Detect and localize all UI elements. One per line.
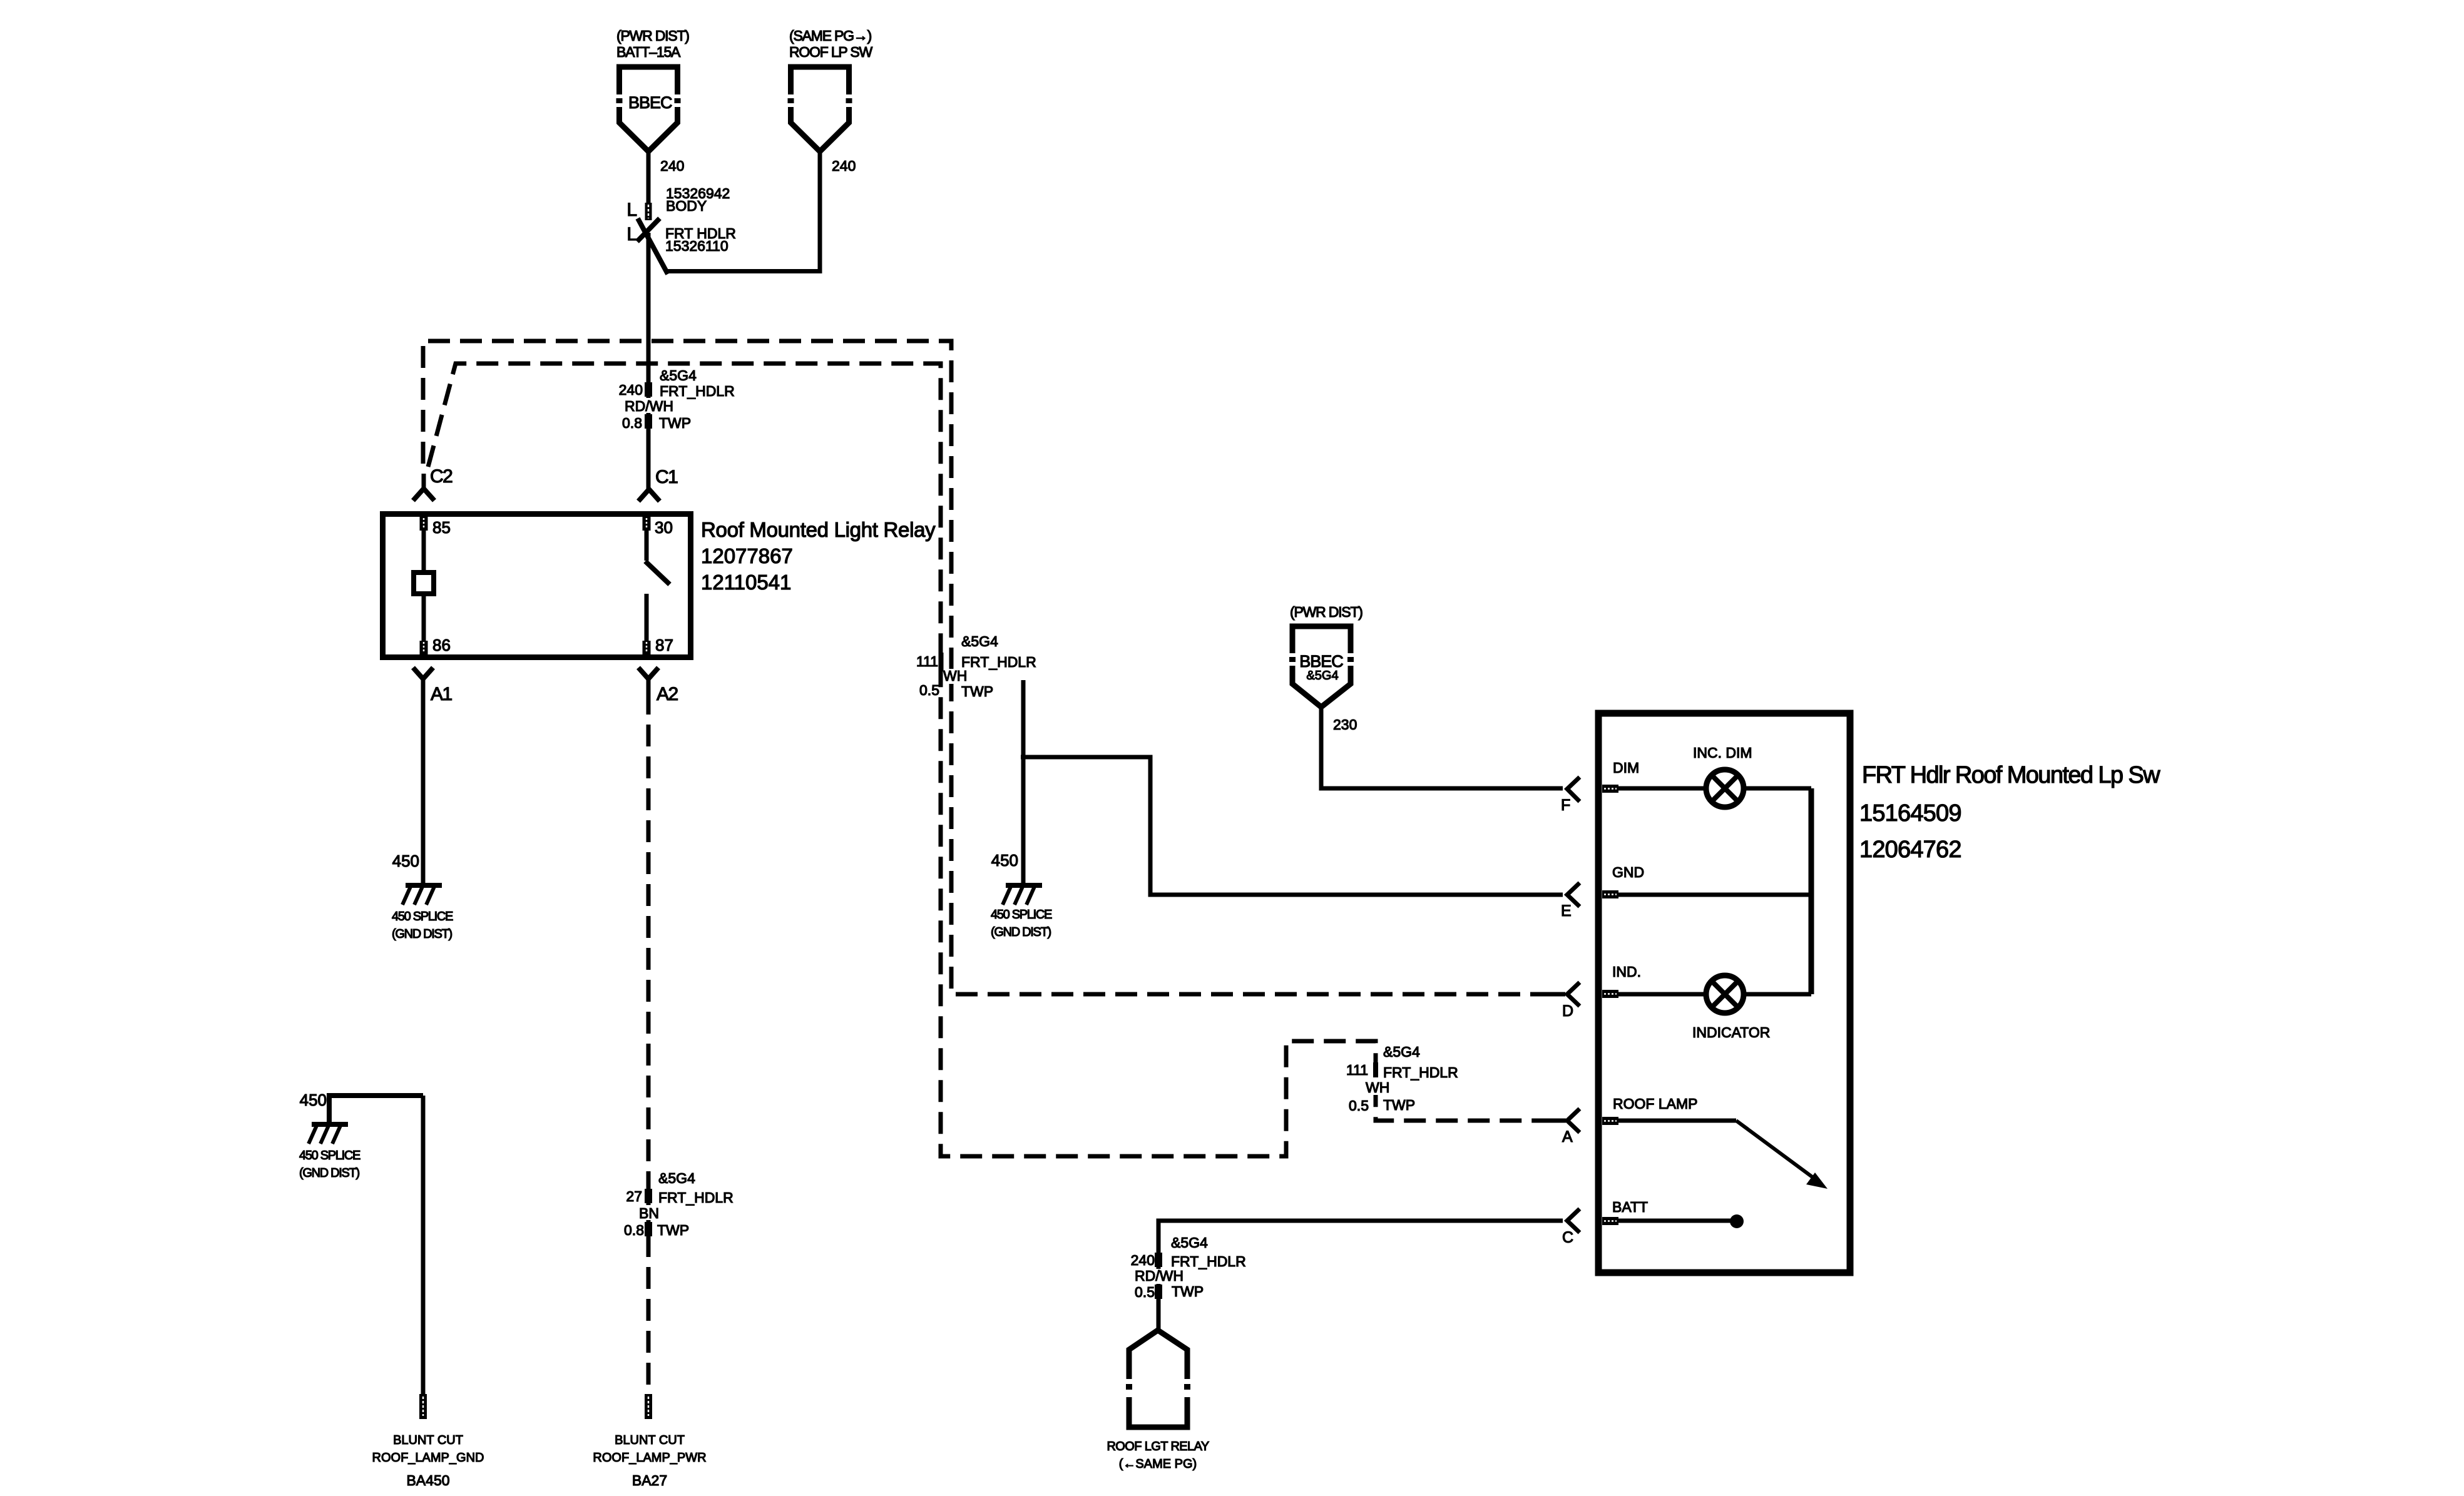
wire end dash at A (1546, 1119, 1566, 1123)
svg-text:(SAME PG→): (SAME PG→) (789, 28, 872, 44)
relay pin 30 (643, 517, 651, 531)
relay pin 86 (420, 641, 428, 654)
svg-text:(PWR DIST): (PWR DIST) (1290, 604, 1362, 620)
svg-text:0.5: 0.5 (1135, 1284, 1155, 1300)
switch blade with arrow (1618, 1119, 1736, 1123)
wire to blunt cut BA450 (421, 1096, 426, 1394)
svg-text:&5G4: &5G4 (658, 1170, 695, 1186)
wire 230 to DIM pin F (1321, 707, 1563, 788)
svg-text:(GND DIST): (GND DIST) (392, 927, 452, 941)
wire to relay C1 (647, 233, 651, 489)
pin E GND (1567, 883, 1580, 907)
relay pin 87 (643, 641, 651, 654)
svg-text:&5G4: &5G4 (660, 367, 697, 384)
blunt cut ROOF_LAMP_GND BA450 (419, 1394, 427, 1419)
svg-text:(←SAME PG): (←SAME PG) (1119, 1457, 1197, 1471)
svg-text:INDICATOR: INDICATOR (1692, 1024, 1770, 1041)
svg-text:GND: GND (1612, 864, 1644, 880)
svg-text:TWP: TWP (1383, 1097, 1415, 1113)
wire label 27 BN 0.8 TWP &5G4 FRT_HDLR (645, 1189, 652, 1203)
svg-text:0.5: 0.5 (919, 682, 939, 698)
svg-text:&5G4: &5G4 (1383, 1044, 1420, 1060)
connector BBEC &5G4 (PWR DIST) (1292, 626, 1351, 707)
wire end dash at D (1545, 992, 1565, 997)
svg-text:BA27: BA27 (632, 1472, 667, 1488)
wire label 111 WH 0.5 TWP &5G4 FRT_HDLR (left) (939, 653, 944, 671)
svg-text:ROOF_LAMP_GND: ROOF_LAMP_GND (372, 1451, 484, 1465)
svg-text:TWP: TWP (659, 415, 691, 431)
svg-text:12110541: 12110541 (701, 571, 791, 594)
svg-text:BBEC: BBEC (628, 93, 672, 112)
svg-text:TWP: TWP (657, 1222, 689, 1238)
svg-text:15326110: 15326110 (665, 238, 728, 254)
svg-text:ROOF LAMP: ROOF LAMP (1613, 1096, 1697, 1112)
svg-text:450 SPLICE: 450 SPLICE (299, 1149, 360, 1163)
svg-text:BLUNT CUT: BLUNT CUT (393, 1433, 463, 1447)
svg-text:BATT: BATT (1612, 1199, 1648, 1215)
svg-text:&5G4: &5G4 (1306, 669, 1338, 683)
svg-text:(GND DIST): (GND DIST) (299, 1166, 360, 1180)
svg-text:ROOF_LAMP_PWR: ROOF_LAMP_PWR (593, 1451, 706, 1465)
pin A ROOF LAMP (1567, 1109, 1580, 1132)
svg-text:0.8: 0.8 (624, 1222, 644, 1238)
wire branch to GND pin E (1021, 757, 1563, 895)
relay coil (422, 531, 426, 570)
connector A2 (638, 668, 658, 679)
relay box Roof Mounted Light Relay (383, 514, 691, 658)
svg-text:E: E (1561, 902, 1572, 920)
svg-text:C2: C2 (430, 466, 452, 487)
connector A1 (413, 668, 433, 679)
svg-text:0.8: 0.8 (622, 415, 642, 431)
pin F DIM (1567, 777, 1580, 801)
wire 240 from ROOF LP SW (667, 148, 820, 272)
svg-text:0.5: 0.5 (1349, 1097, 1369, 1114)
svg-text:BATT–15A: BATT–15A (616, 44, 681, 60)
relay switch contact (645, 531, 649, 561)
svg-text:L: L (626, 224, 637, 245)
svg-text:TWP: TWP (961, 683, 993, 700)
svg-text:BLUNT CUT: BLUNT CUT (615, 1433, 685, 1447)
svg-text:450 SPLICE: 450 SPLICE (991, 908, 1052, 922)
connector ROOF LP SW (SAME PG) (791, 67, 849, 151)
ground 450 SPLICE (GND DIST) right (1006, 883, 1042, 888)
svg-text:D: D (1562, 1002, 1573, 1020)
wire 240 from BATT-15A fuse (647, 151, 651, 203)
svg-text:RD/WH: RD/WH (625, 398, 673, 414)
svg-text:INC. DIM: INC. DIM (1693, 745, 1752, 761)
svg-text:FRT Hdlr Roof Mounted Lp Sw: FRT Hdlr Roof Mounted Lp Sw (1862, 762, 2160, 788)
dashed wire A2 to blunt cut BA27 (647, 693, 651, 1394)
svg-text:240: 240 (660, 158, 684, 174)
ground 450 SPLICE (GND DIST) left (406, 883, 442, 888)
ground 450 SPLICE (GND DIST) bottom left (329, 1096, 423, 1123)
svg-text:15164509: 15164509 (1859, 800, 1961, 827)
relay pin 85 (420, 517, 428, 531)
connector BBEC (PWR DIST BATT-15A) (620, 67, 678, 151)
dashed wire C2 to ROOF LAMP pin A (428, 364, 1563, 1156)
svg-text:BN: BN (639, 1205, 659, 1221)
svg-text:450: 450 (991, 851, 1018, 870)
svg-text:A1: A1 (431, 684, 452, 705)
pin D IND. (1567, 982, 1580, 1006)
wire label 240 RD/WH 0.5 TWP &5G4 FRT_HDLR (lower) (1155, 1253, 1162, 1267)
svg-text:12064762: 12064762 (1859, 837, 1961, 863)
svg-text:DIM: DIM (1613, 760, 1639, 776)
svg-text:A2: A2 (657, 684, 678, 705)
svg-text:ROOF LGT RELAY: ROOF LGT RELAY (1107, 1440, 1209, 1453)
svg-text:12077867: 12077867 (701, 544, 793, 567)
svg-text:450 SPLICE: 450 SPLICE (392, 910, 453, 924)
svg-text:IND.: IND. (1612, 964, 1641, 980)
switch box FRT Hdlr Roof Mounted Lp Sw (1598, 713, 1850, 1273)
pin C BATT (1567, 1209, 1580, 1233)
switch common contact (1618, 1219, 1730, 1223)
wire label 240 RD/WH 0.8 TWP &5G4 FRT_HDLR (645, 382, 652, 397)
svg-text:87: 87 (655, 636, 673, 654)
connector C2 (422, 474, 426, 488)
svg-text:230: 230 (1333, 716, 1357, 733)
svg-text:111: 111 (916, 653, 938, 669)
svg-text:BA450: BA450 (406, 1472, 449, 1488)
svg-text:BODY: BODY (666, 198, 707, 214)
svg-text:&5G4: &5G4 (1171, 1234, 1208, 1251)
svg-text:WH: WH (1366, 1079, 1389, 1096)
svg-text:Roof Mounted Light Relay: Roof Mounted Light Relay (701, 518, 936, 541)
connector C1 (638, 489, 660, 501)
svg-text:C: C (1562, 1229, 1573, 1246)
svg-text:F: F (1561, 796, 1570, 814)
svg-text:TWP: TWP (1172, 1283, 1204, 1300)
inline connector splice X (FRT HDLR 15326110) (638, 218, 668, 274)
lamp INDICATOR (1618, 992, 1706, 997)
svg-text:240: 240 (619, 382, 643, 398)
inline connector terminal L (BODY 15326942) (645, 203, 652, 220)
svg-text:BBEC: BBEC (1299, 652, 1343, 671)
svg-text:(GND DIST): (GND DIST) (991, 925, 1051, 939)
blunt cut ROOF_LAMP_PWR BA27 (645, 1394, 652, 1419)
svg-text:FRT_HDLR: FRT_HDLR (1383, 1064, 1458, 1081)
svg-text:(PWR DIST): (PWR DIST) (616, 28, 689, 44)
svg-text:A: A (1562, 1128, 1573, 1146)
svg-text:30: 30 (655, 518, 673, 537)
svg-text:86: 86 (432, 636, 451, 654)
wire 450 to ground splice (421, 693, 426, 884)
svg-text:L: L (626, 200, 637, 220)
svg-text:&5G4: &5G4 (961, 633, 998, 649)
svg-text:450: 450 (392, 852, 419, 870)
wire label 111 WH 0.5 TWP &5G4 FRT_HDLR (right) (1373, 1062, 1378, 1077)
svg-text:240: 240 (832, 158, 856, 174)
svg-text:FRT_HDLR: FRT_HDLR (658, 1189, 734, 1206)
svg-text:WH: WH (943, 668, 967, 684)
svg-text:111: 111 (1346, 1062, 1368, 1078)
wire 240 RD/WH to BATT pin C (1158, 1221, 1563, 1330)
svg-text:240: 240 (1131, 1252, 1155, 1268)
connector ROOF LGT RELAY (SAME PG) (1129, 1330, 1187, 1427)
svg-text:C1: C1 (655, 467, 678, 487)
svg-text:450: 450 (300, 1091, 327, 1109)
svg-text:FRT_HDLR: FRT_HDLR (961, 654, 1036, 670)
svg-text:RD/WH: RD/WH (1135, 1268, 1183, 1284)
wire 111 WH to ground splice (1021, 680, 1026, 883)
svg-text:FRT_HDLR: FRT_HDLR (660, 383, 735, 399)
dashed wire C2 to IND pin D (423, 341, 1563, 994)
svg-text:85: 85 (432, 518, 451, 537)
svg-text:27: 27 (626, 1188, 642, 1204)
svg-text:ROOF LP SW: ROOF LP SW (789, 44, 872, 60)
gnd bus wire inside switch (1809, 788, 1814, 994)
